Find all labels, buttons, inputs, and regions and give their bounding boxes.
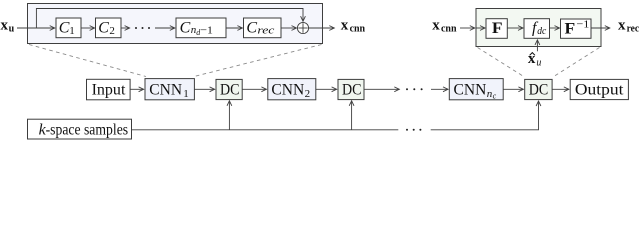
svg-text:rec: rec xyxy=(627,24,640,35)
label x_u xyxy=(1,18,15,35)
box C_rec xyxy=(244,18,282,38)
svg-text:DC: DC xyxy=(529,81,549,98)
box CNN_{n_c} xyxy=(449,79,503,101)
wire C1 to C2 xyxy=(81,27,95,29)
svg-text:C: C xyxy=(98,19,109,36)
wire DC2 to middle dots xyxy=(364,88,399,90)
svg-text:x: x xyxy=(341,18,349,34)
bottom dots xyxy=(406,129,421,131)
svg-text:DC: DC xyxy=(220,81,240,98)
svg-text:1: 1 xyxy=(183,88,189,100)
wire CNN1 to DC1 xyxy=(194,88,214,90)
wire x-hat_u up to f_dc xyxy=(536,40,538,51)
svg-text:CNN: CNN xyxy=(454,81,487,98)
wire C2 to dots xyxy=(121,27,130,29)
svg-text:x: x xyxy=(432,18,440,34)
wire skip connection xyxy=(36,9,303,29)
label x_cnn (left) xyxy=(341,18,366,35)
dashed zoom line left (cascade to CNN1) xyxy=(29,45,146,77)
svg-text:CNN: CNN xyxy=(149,81,182,98)
svg-text:rec: rec xyxy=(257,24,274,36)
svg-text:cnn: cnn xyxy=(441,24,457,35)
svg-text:1: 1 xyxy=(69,25,75,37)
svg-text:cnn: cnn xyxy=(350,24,366,35)
wire CNN2 to DC2 xyxy=(316,88,337,90)
wire DC3 to Output xyxy=(552,88,569,90)
svg-text:dc: dc xyxy=(537,25,546,37)
box DC3 xyxy=(525,79,552,99)
middle row dots xyxy=(406,88,423,90)
wire f_dc to F inverse xyxy=(550,27,560,29)
data-consistency box (top-right, green) xyxy=(476,9,601,47)
box DC2 xyxy=(338,79,364,99)
box Output xyxy=(570,79,628,99)
svg-text:CNN: CNN xyxy=(271,81,304,98)
box CNN_1 xyxy=(145,79,194,100)
box CNN_2 xyxy=(268,79,316,100)
wire Input to CNN1 xyxy=(130,88,144,90)
svg-text:x: x xyxy=(618,18,626,34)
dashed zoom line right (cascade to CNN1) xyxy=(194,45,322,77)
box C_{n_d-1} xyxy=(176,18,226,38)
box DC1 xyxy=(216,79,242,99)
svg-text:Input: Input xyxy=(92,81,126,98)
box C2 xyxy=(96,18,122,38)
label x_rec xyxy=(618,18,640,35)
big cascade box (top-left, lavender) xyxy=(28,4,323,44)
wire DC1 to CNN2 xyxy=(242,88,266,90)
svg-text:F: F xyxy=(565,20,576,37)
svg-text:x: x xyxy=(1,18,9,34)
dashed zoom line right (green box to DC3) xyxy=(553,48,600,78)
svg-text:C: C xyxy=(59,19,70,36)
svg-text:−1: −1 xyxy=(200,24,213,36)
adder (plus in circle) xyxy=(297,22,308,33)
wire x_u to C1 xyxy=(17,27,55,29)
dashed zoom line left (green box to DC3) xyxy=(478,48,525,78)
svg-text:F: F xyxy=(492,20,503,37)
box F^-1 xyxy=(561,19,592,39)
box Input xyxy=(87,79,131,100)
svg-text:−1: −1 xyxy=(576,19,589,31)
wire dots to Cnd-1 xyxy=(155,27,175,29)
box F xyxy=(486,19,507,39)
svg-text:DC: DC xyxy=(342,81,362,98)
svg-text:u: u xyxy=(9,24,15,35)
wire dots to CNN_nc xyxy=(431,88,448,90)
svg-text:u: u xyxy=(536,58,541,69)
box k-space samples xyxy=(28,119,132,139)
svg-text:c: c xyxy=(493,92,497,101)
wire CNN_nc to DC3 xyxy=(503,88,523,90)
svg-text:Output: Output xyxy=(575,81,624,98)
wire F to f_dc xyxy=(507,27,523,29)
svg-text:C: C xyxy=(180,19,191,36)
box C1 xyxy=(56,18,81,38)
wire riser to DC1 xyxy=(228,101,230,130)
wire x_cnn to green box xyxy=(460,27,475,29)
svg-text:2: 2 xyxy=(109,25,115,37)
box f_dc xyxy=(524,19,550,39)
svg-text:2: 2 xyxy=(305,88,311,100)
label x_cnn (right, input of DC block) xyxy=(432,18,457,35)
wire k-space bus right segment with riser to DC3 xyxy=(431,101,539,130)
wire k-space bus left segment xyxy=(132,129,399,131)
label x-hat_u xyxy=(528,51,542,69)
svg-text:C: C xyxy=(246,19,257,36)
wire Cnd-1 to Crec xyxy=(226,27,242,29)
wire riser to DC2 xyxy=(351,101,353,130)
dots (cascade ellipsis) xyxy=(135,27,150,29)
wire Crec to adder xyxy=(281,27,297,29)
wire green edge to F xyxy=(476,27,485,29)
wire F inverse to x_rec xyxy=(591,27,610,29)
wire adder to x_cnn xyxy=(309,27,335,29)
svg-text:-space samples: -space samples xyxy=(46,122,129,139)
